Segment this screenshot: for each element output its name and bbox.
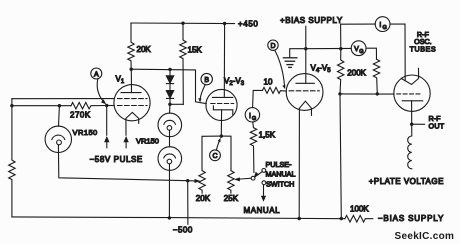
- tube VR150 lower envelope: [158, 147, 182, 171]
- tube V2-V3 plate: [212, 96, 232, 98]
- svg-text:VR150: VR150: [73, 128, 98, 137]
- tube VR150 lower anode arc: [164, 154, 176, 158]
- wire IG to RF plate: [390, 24, 405, 81]
- tube RF osc envelope: [394, 75, 430, 111]
- resistor 100K: [345, 215, 373, 222]
- resistor 200K: [338, 49, 344, 94]
- wire split to 25K pot: [221, 136, 231, 171]
- ground: [283, 58, 297, 68]
- wire +BIAS vertical / V4 plate lead: [305, 26, 307, 83]
- wire RF grid row: [340, 93, 394, 95]
- svg-text:270K: 270K: [70, 110, 91, 119]
- wire VR stack bottom to bus: [168, 164, 170, 218]
- callout B pointer: [200, 85, 205, 99]
- svg-text:B: B: [204, 77, 209, 84]
- resistor 20K (plate load V1): [128, 23, 134, 69]
- node VR stack/bus junction: [168, 216, 171, 219]
- svg-text:SWITCH: SWITCH: [266, 179, 294, 188]
- svg-text:G: G: [359, 49, 363, 55]
- meter IG (V2 cathode circuit): [245, 108, 259, 122]
- callout D circle: [268, 40, 278, 50]
- svg-text:20K: 20K: [196, 194, 211, 203]
- tube V4-V5 envelope: [286, 74, 323, 111]
- node rail/V2 plate junction: [223, 22, 226, 25]
- svg-text:D: D: [270, 43, 275, 50]
- svg-text:VR150: VR150: [136, 137, 159, 146]
- tube V4-V5 plate: [296, 82, 314, 84]
- diode CR2: [166, 84, 173, 105]
- arrow 20K wiper: [188, 180, 196, 182]
- svg-text:G: G: [382, 25, 386, 31]
- wire V1 grid2 dash link: [107, 105, 115, 107]
- callout A pointer: [97, 79, 102, 101]
- switch manual contact: [262, 181, 266, 185]
- svg-text:−500: −500: [173, 225, 193, 234]
- wire IG riser: [341, 24, 376, 49]
- svg-text:TUBES: TUBES: [410, 45, 436, 54]
- tube V1 cathode: [126, 112, 139, 123]
- wire split to 20K pot: [202, 136, 221, 171]
- svg-text:V2-V3: V2-V3: [224, 77, 245, 88]
- inductor L1: [408, 124, 412, 169]
- svg-text:+450: +450: [238, 20, 258, 29]
- wire jog diode bottom to 15K column: [170, 103, 183, 105]
- node diode top junction: [168, 68, 171, 71]
- svg-text:+PLATE VOLTAGE: +PLATE VOLTAGE: [369, 177, 444, 186]
- wire VG to grid resistor: [366, 48, 377, 59]
- wire pulse input to grid2: [106, 106, 108, 136]
- tube V2-V3 plate lead to +450: [223, 24, 225, 98]
- tube V1 envelope: [114, 85, 150, 121]
- node -500 drop junction: [186, 179, 189, 182]
- wire 200K bottom to bus: [340, 94, 341, 219]
- wire -500 terminal drop: [187, 181, 189, 225]
- wire VG row: [306, 47, 351, 49]
- node bias/ground/VG junction: [304, 47, 307, 50]
- potentiometer 20K: [199, 171, 205, 193]
- svg-text:10: 10: [264, 78, 273, 87]
- tube V4-V5 cathode: [299, 101, 311, 115]
- svg-text:A: A: [94, 71, 99, 78]
- tube RF cathode: [402, 100, 422, 102]
- node 200K top junction: [339, 47, 342, 50]
- node 20K/V1 plate junction: [130, 68, 133, 71]
- svg-text:20K: 20K: [137, 45, 152, 54]
- resistor 270K: [71, 103, 107, 109]
- node 200K/bus junction: [340, 217, 343, 220]
- tube RF grid (dashed): [397, 93, 422, 95]
- tube VR150 upper cathode circle: [167, 126, 172, 131]
- wire to ground: [290, 49, 306, 58]
- node diode bottom junction: [168, 103, 171, 106]
- svg-text:15K: 15K: [188, 45, 203, 54]
- svg-text:SeekIC.com: SeekIC.com: [395, 231, 455, 242]
- wire VR stack top lead: [169, 104, 171, 113]
- callout B circle: [201, 73, 212, 84]
- node V2 cathode split: [220, 134, 223, 137]
- callout D pointer: [275, 50, 285, 85]
- node 200K/grid wire junction: [338, 92, 341, 95]
- node V4 cathode/bus junction: [298, 217, 301, 220]
- svg-text:C: C: [212, 153, 217, 160]
- potentiometer 25K: [228, 171, 234, 193]
- svg-text:+BIAS SUPPLY: +BIAS SUPPLY: [280, 16, 343, 25]
- tube V2-V3 cathode: [213, 106, 232, 115]
- arrow 25K wiper: [238, 178, 251, 179]
- wire 270K row: [12, 105, 71, 107]
- node left column / 270K wire: [10, 104, 13, 107]
- tube RF plate chevron: [401, 68, 418, 84]
- wire VR stack middle link: [169, 130, 171, 147]
- switch pulse contact: [262, 169, 266, 173]
- tube V1 grid 1 (dashed): [118, 98, 148, 100]
- meter VG: [351, 41, 366, 56]
- resistor 10: [263, 87, 287, 93]
- tube V1 plate: [121, 92, 141, 94]
- node rail/15K junction: [181, 22, 184, 25]
- arrow switch blade tip: [254, 172, 259, 177]
- switch pole contact: [251, 176, 255, 180]
- tube V4-V5 grid (dashed): [289, 90, 319, 92]
- wire V1 grid1 to left column: [12, 98, 114, 100]
- svg-text:MANUAL: MANUAL: [266, 169, 296, 178]
- node R-F OUT junction: [410, 123, 413, 126]
- wire top +450 rail: [131, 22, 235, 25]
- wire IG top to 10 ohm: [253, 90, 263, 107]
- svg-text:25K: 25K: [224, 194, 239, 203]
- arrow pulse input 1: [106, 142, 108, 148]
- resistor 1.5K: [250, 128, 256, 173]
- wire V2 cathode lead: [220, 110, 222, 136]
- tube VR150 upper anode arc: [164, 120, 176, 124]
- switch blade: [255, 172, 263, 178]
- wire VR150 top lead: [58, 106, 61, 127]
- callout A circle: [91, 68, 102, 79]
- tube V2-V3 grid (dashed): [211, 103, 234, 105]
- tube V2-V3 envelope: [206, 89, 237, 120]
- wire RF cathode lead: [411, 101, 413, 124]
- wire V4 cathode to bus: [298, 108, 300, 218]
- tube VR150 upper (right stack) envelope: [158, 113, 182, 137]
- arrow pulse input 2: [125, 142, 127, 148]
- resistor RF grid leak: [373, 59, 379, 94]
- svg-text:V4-V5: V4-V5: [311, 64, 332, 75]
- node VR150 top junction: [58, 104, 61, 107]
- tube VR150 (left) anode arc: [52, 135, 65, 139]
- diode CR1: [166, 69, 173, 83]
- wire V1 plate lead: [130, 69, 132, 92]
- node V1 grid2 junction: [105, 104, 108, 107]
- tube VR150 (left) cathode circle: [57, 140, 62, 145]
- svg-text:MANUAL: MANUAL: [244, 206, 281, 215]
- tube VR150 (left) envelope: [45, 126, 71, 152]
- wire V1-plate row to V2 grid: [131, 69, 206, 103]
- arrow manual terminal: [263, 185, 265, 197]
- wire V1 cathode lead: [125, 118, 127, 135]
- svg-text:I: I: [379, 22, 381, 29]
- svg-text:−BIAS SUPPLY: −BIAS SUPPLY: [378, 214, 444, 223]
- svg-text:V1: V1: [116, 75, 125, 86]
- svg-text:100K: 100K: [350, 205, 369, 214]
- svg-text:G: G: [252, 116, 256, 122]
- svg-text:PULSE-: PULSE-: [266, 160, 293, 169]
- tube V1 grid 2 (dashed): [118, 105, 148, 107]
- svg-text:200K: 200K: [347, 69, 366, 78]
- svg-text:OUT: OUT: [429, 122, 445, 131]
- wire IG bottom to 1.5K: [252, 122, 255, 128]
- wire VR150 bottom to wiper row: [58, 145, 187, 181]
- resistor 15K: [180, 23, 186, 104]
- meter IG (RF plate): [375, 17, 390, 32]
- callout C circle: [210, 150, 221, 161]
- node grid leak bottom junction: [376, 92, 379, 95]
- wire left column with resistor: [9, 99, 15, 217]
- svg-text:I: I: [249, 113, 251, 120]
- svg-text:1,5K: 1,5K: [259, 131, 276, 140]
- tube VR150 lower cathode circle: [167, 159, 172, 164]
- wire R-F OUT stub: [412, 123, 425, 125]
- wire -500 bus: [12, 217, 345, 219]
- callout C pointer: [216, 141, 219, 150]
- svg-text:−58V PULSE: −58V PULSE: [90, 155, 143, 164]
